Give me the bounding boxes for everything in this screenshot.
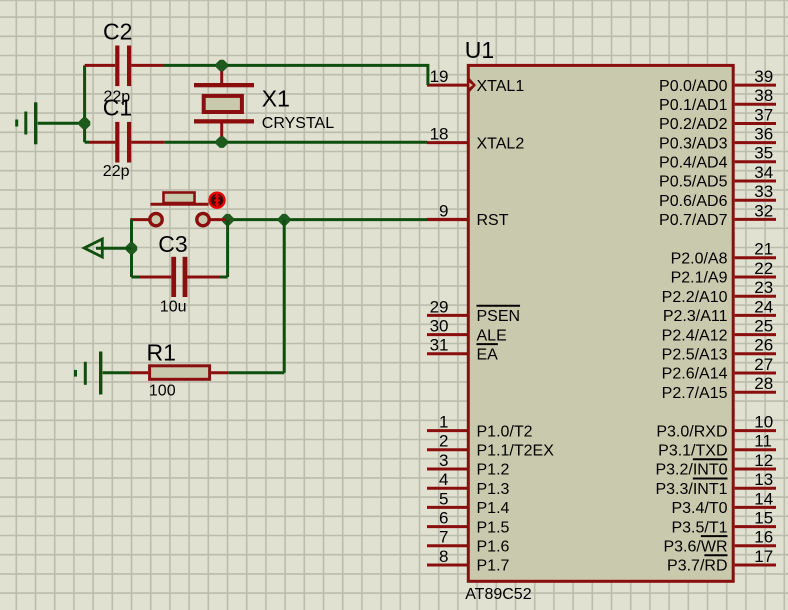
svg-text:C3: C3 (158, 231, 187, 257)
svg-text:9: 9 (439, 201, 448, 220)
svg-text:P2.4/A12: P2.4/A12 (662, 327, 728, 344)
svg-text:EA: EA (477, 347, 499, 364)
svg-text:37: 37 (754, 105, 773, 124)
svg-text:19: 19 (430, 67, 449, 86)
svg-text:4: 4 (439, 470, 448, 489)
svg-text:P0.4/AD4: P0.4/AD4 (659, 155, 728, 172)
svg-text:P0.6/AD6: P0.6/AD6 (659, 193, 728, 210)
svg-text:X1: X1 (262, 86, 290, 112)
svg-text:12: 12 (754, 451, 773, 470)
svg-text:XTAL1: XTAL1 (477, 78, 525, 95)
svg-text:P3.4/T0: P3.4/T0 (671, 500, 727, 517)
svg-text:P0.3/AD3: P0.3/AD3 (659, 135, 728, 152)
svg-text:P1.2: P1.2 (477, 462, 510, 479)
svg-text:7: 7 (439, 528, 448, 547)
svg-text:ALE: ALE (477, 327, 507, 344)
svg-text:8: 8 (439, 547, 448, 566)
svg-text:P2.6/A14: P2.6/A14 (662, 366, 728, 383)
svg-text:P3.2/INT0: P3.2/INT0 (655, 462, 727, 479)
svg-text:P0.1/AD1: P0.1/AD1 (659, 97, 728, 114)
svg-text:11: 11 (754, 432, 772, 451)
svg-text:35: 35 (754, 144, 773, 163)
svg-text:21: 21 (754, 240, 773, 259)
svg-text:XTAL2: XTAL2 (477, 135, 525, 152)
svg-text:P2.1/A9: P2.1/A9 (671, 270, 728, 287)
svg-text:RST: RST (477, 212, 509, 229)
svg-text:5: 5 (439, 489, 448, 508)
svg-text:CRYSTAL: CRYSTAL (262, 115, 334, 132)
svg-text:6: 6 (439, 509, 448, 528)
svg-text:22: 22 (754, 259, 773, 278)
svg-text:2: 2 (439, 432, 448, 451)
svg-text:P3.3/INT1: P3.3/INT1 (655, 481, 727, 498)
svg-text:25: 25 (754, 317, 773, 336)
svg-text:P2.7/A15: P2.7/A15 (662, 385, 728, 402)
svg-text:P1.1/T2EX: P1.1/T2EX (477, 443, 555, 460)
svg-text:10: 10 (754, 413, 773, 432)
svg-text:P2.5/A13: P2.5/A13 (662, 347, 728, 364)
svg-text:P2.3/A11: P2.3/A11 (663, 308, 728, 325)
svg-text:PSEN: PSEN (477, 308, 521, 325)
svg-text:P3.6/WR: P3.6/WR (663, 539, 727, 556)
svg-text:P1.0/T2: P1.0/T2 (477, 423, 533, 440)
svg-text:31: 31 (430, 336, 449, 355)
svg-text:27: 27 (754, 355, 773, 374)
svg-text:U1: U1 (465, 37, 494, 63)
svg-text:C2: C2 (103, 18, 132, 44)
svg-text:24: 24 (754, 297, 773, 316)
svg-text:16: 16 (754, 528, 773, 547)
svg-text:P3.7/RD: P3.7/RD (667, 558, 727, 575)
svg-text:P2.2/A10: P2.2/A10 (662, 289, 728, 306)
svg-text:P2.0/A8: P2.0/A8 (671, 251, 728, 268)
svg-text:P1.3: P1.3 (477, 481, 510, 498)
svg-text:P3.5/T1: P3.5/T1 (671, 519, 727, 536)
svg-text:P1.5: P1.5 (477, 519, 510, 536)
svg-text:P0.0/AD0: P0.0/AD0 (659, 78, 728, 95)
svg-text:32: 32 (754, 201, 773, 220)
svg-text:AT89C52: AT89C52 (465, 586, 532, 603)
svg-text:28: 28 (754, 374, 773, 393)
svg-text:13: 13 (754, 470, 773, 489)
svg-text:15: 15 (754, 509, 773, 528)
svg-text:39: 39 (754, 67, 773, 86)
svg-text:30: 30 (430, 317, 449, 336)
svg-text:17: 17 (754, 547, 773, 566)
svg-text:P3.0/RXD: P3.0/RXD (656, 423, 727, 440)
svg-text:34: 34 (754, 163, 773, 182)
svg-text:23: 23 (754, 278, 773, 297)
svg-text:100: 100 (149, 383, 176, 400)
svg-text:3: 3 (439, 451, 448, 470)
svg-text:29: 29 (430, 297, 449, 316)
svg-text:26: 26 (754, 336, 773, 355)
svg-text:10u: 10u (160, 299, 187, 316)
svg-text:P0.7/AD7: P0.7/AD7 (659, 212, 728, 229)
svg-text:P1.6: P1.6 (477, 539, 510, 556)
svg-text:P3.1/TXD: P3.1/TXD (658, 443, 727, 460)
svg-text:22p: 22p (103, 163, 130, 180)
svg-text:1: 1 (439, 413, 448, 432)
svg-text:18: 18 (430, 125, 449, 144)
svg-text:38: 38 (754, 86, 773, 105)
svg-text:P0.2/AD2: P0.2/AD2 (659, 116, 728, 133)
svg-text:36: 36 (754, 125, 773, 144)
svg-text:P1.7: P1.7 (477, 558, 510, 575)
svg-text:14: 14 (754, 489, 773, 508)
svg-text:33: 33 (754, 182, 773, 201)
svg-text:R1: R1 (147, 340, 176, 366)
svg-text:P1.4: P1.4 (477, 500, 510, 517)
svg-text:P0.5/AD5: P0.5/AD5 (659, 174, 728, 191)
svg-text:C1: C1 (103, 94, 132, 120)
